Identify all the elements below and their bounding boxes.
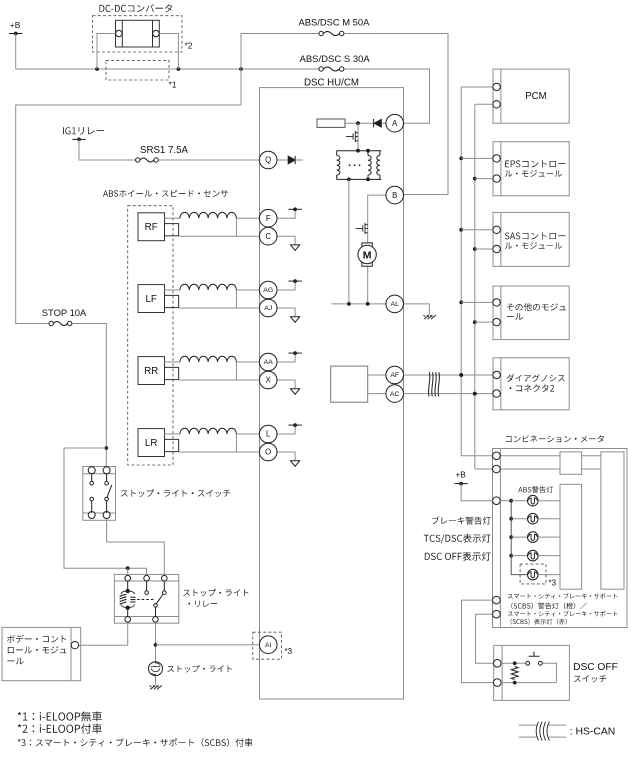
- label diagnosis line2: [510, 384, 555, 392]
- svg-text:ABS/DSC M 50A: ABS/DSC M 50A: [299, 16, 371, 27]
- fuse ABS/DSC S 30A: [300, 54, 371, 71]
- terminal AC: [386, 385, 404, 403]
- DSC OFF switch box: [494, 645, 570, 700]
- power stub at sensor LF: [277, 279, 302, 290]
- node solenoid supply junction: [356, 121, 360, 125]
- terminal AL: [386, 295, 404, 313]
- module SAS control module: [493, 212, 569, 266]
- DSC OFF switch internals: [501, 652, 556, 685]
- label TCS/DSC indicator: [424, 534, 491, 544]
- label SCBS indicator line2: [511, 619, 567, 625]
- label BCM line1: [7, 635, 66, 643]
- terminal AI (dashed, SCBS): [253, 632, 293, 659]
- wire AC CAN-L: [404, 392, 493, 396]
- lamp SCBS indicator: [528, 569, 561, 580]
- diode at terminal A: [374, 119, 382, 127]
- wire main +B bus y69: [16, 69, 430, 123]
- svg-text:*3: *3: [549, 579, 557, 588]
- wire DC-DC left lead: [97, 34, 116, 70]
- label BCM line2: [8, 646, 66, 653]
- terminal AJ: [259, 299, 277, 317]
- sensor RF: [138, 213, 179, 241]
- terminal AA: [259, 353, 277, 371]
- svg-text:AC: AC: [390, 391, 400, 398]
- stop light relay box: [114, 574, 178, 623]
- footnote 1: [18, 711, 102, 721]
- module other modules: [493, 286, 569, 340]
- chassis ground at stop light: [150, 685, 162, 689]
- meter CAN interface box: [560, 452, 582, 474]
- footnote 2: [18, 724, 102, 734]
- terminal X: [259, 371, 277, 389]
- meter CAN wires inside: [500, 456, 601, 469]
- motor M (pump): [358, 243, 376, 266]
- svg-text:+B: +B: [10, 20, 21, 30]
- wires unit to AF/AC: [368, 375, 386, 394]
- label stop light relay line2: [188, 601, 217, 608]
- node +B battery terminal: [9, 20, 22, 35]
- svg-text:LR: LR: [145, 438, 158, 449]
- chassis ground at AL: [423, 315, 435, 319]
- svg-text:*1: *1: [169, 80, 177, 90]
- svg-text:AI: AI: [265, 642, 272, 649]
- wire +B down to main bus: [15, 34, 17, 70]
- stop light switch box: [83, 467, 116, 521]
- label combination meter: [506, 435, 604, 442]
- svg-text:+B: +B: [455, 470, 466, 480]
- svg-text:AA: AA: [264, 359, 274, 366]
- solenoid valve coil array: [337, 149, 382, 182]
- fuse SRS1 7.5A: [136, 145, 189, 162]
- module body control: [2, 627, 81, 680]
- resistor in DSC OFF switch: [511, 667, 518, 680]
- diode at terminal Q: [277, 156, 303, 164]
- module PCM: [493, 69, 569, 123]
- svg-text:Q: Q: [265, 156, 271, 165]
- svg-text:: HS-CAN: : HS-CAN: [570, 726, 616, 737]
- svg-text:M: M: [363, 249, 372, 261]
- dashed box SCBS lamp *3: [520, 564, 557, 587]
- sensor LR: [138, 429, 179, 457]
- label DSC OFF indicator: [425, 552, 491, 561]
- +B stub at meter: [454, 470, 492, 501]
- svg-text:C: C: [265, 232, 271, 241]
- svg-text:AF: AF: [390, 372, 399, 379]
- DSC HU/CM container box: [260, 88, 404, 699]
- module EPS control module: [493, 142, 569, 196]
- wire sensor LR bottom lead: [179, 434, 260, 452]
- wire CAN-L vertical bus: [473, 104, 477, 469]
- wire sensor RF bottom lead: [179, 218, 260, 236]
- bypass dashed box *1: [106, 60, 177, 89]
- wire sensor LR top lead with coil: [165, 428, 260, 434]
- lamp TCS/DSC indicator: [511, 532, 560, 543]
- label IG1 relay: [63, 127, 104, 135]
- wire IG1 to SRS1 fuse to Q: [79, 139, 259, 160]
- transistor (FET) motor driver: [356, 223, 368, 234]
- svg-text:A: A: [392, 119, 398, 128]
- terminal F: [259, 209, 277, 227]
- footnote 3: [18, 738, 253, 746]
- ground at sensor LF: [277, 308, 300, 322]
- label stop light relay: [183, 589, 248, 597]
- power stub at sensor RR: [277, 351, 302, 362]
- ground at sensor RF: [277, 236, 300, 250]
- svg-text:DSC HU/CM: DSC HU/CM: [304, 77, 359, 88]
- label EPS: [505, 160, 565, 167]
- wire to ABS/DSC M 50A fuse: [241, 34, 448, 195]
- svg-text:AJ: AJ: [264, 305, 272, 312]
- relay coil: [120, 581, 136, 617]
- wire sensor RR top lead with coil: [165, 356, 260, 362]
- svg-text:RF: RF: [145, 222, 158, 233]
- svg-text:SRS1 7.5A: SRS1 7.5A: [140, 145, 188, 156]
- label SAS line2: [505, 242, 562, 249]
- wire meter pin4 to DSC OFF switch: [462, 600, 494, 683]
- terminal O: [259, 443, 277, 461]
- meter pins: [493, 452, 501, 618]
- svg-text:LF: LF: [145, 294, 156, 305]
- stop light switch contacts: [90, 474, 112, 513]
- wires CAN to module pins: [461, 87, 493, 469]
- wire branch to relay coil: [64, 448, 147, 575]
- wire sensor RF top lead with coil: [165, 212, 260, 218]
- svg-text:X: X: [266, 376, 272, 385]
- wire relay to stop light and AI: [154, 622, 260, 661]
- label ABS warning lamp: [518, 486, 553, 493]
- wire resistor to diode to terminal A: [345, 122, 386, 124]
- label SCBS warning line1: [508, 593, 617, 599]
- terminal A: [386, 114, 404, 132]
- module diagnosis connector 2: [493, 358, 569, 410]
- label SAS: [505, 232, 566, 239]
- svg-text:O: O: [265, 448, 271, 457]
- label brake warning lamp: [432, 516, 491, 524]
- wire relay to body control module: [79, 622, 128, 645]
- combination meter box: [493, 449, 628, 628]
- svg-text:STOP 10A: STOP 10A: [42, 307, 87, 318]
- label BCM line3: [7, 658, 23, 665]
- label ABS wheel speed sensor: [103, 190, 228, 197]
- terminal B: [386, 186, 404, 204]
- svg-text:AG: AG: [263, 287, 273, 294]
- svg-text:RR: RR: [144, 366, 158, 377]
- HS-CAN legend symbol: [519, 722, 566, 741]
- svg-text:B: B: [392, 191, 397, 200]
- ground at sensor LR: [277, 452, 300, 466]
- svg-text:*3: *3: [285, 647, 293, 656]
- label EPS line2: [505, 170, 562, 177]
- label stop light switch: [121, 489, 230, 497]
- sensor LF: [138, 285, 179, 313]
- wire sensor RR bottom lead: [179, 362, 260, 380]
- wire AF CAN-H: [404, 373, 493, 377]
- terminal AF: [386, 366, 404, 384]
- power stub at sensor LR: [277, 423, 302, 434]
- meter middle internal box: [560, 484, 582, 589]
- lamp ABS indicator: [511, 495, 560, 506]
- wire lamp to ground: [155, 676, 157, 685]
- sensor RR: [138, 357, 179, 385]
- dashed box wheel speed sensors: [128, 206, 173, 465]
- label diagnosis: [507, 374, 565, 382]
- label other modules: [507, 303, 566, 311]
- meter right internal box: [601, 452, 624, 589]
- lamp brake indicator: [511, 513, 560, 524]
- label stop light: [167, 665, 232, 673]
- terminal C: [259, 227, 277, 245]
- svg-text:AL: AL: [391, 301, 400, 308]
- svg-text:PCM: PCM: [525, 91, 547, 102]
- wire CAN-H vertical bus: [459, 87, 463, 456]
- node STOP fuse junction: [104, 446, 108, 450]
- label other modules line2: [507, 313, 523, 320]
- wire meter pin5 to DSC OFF switch: [476, 614, 494, 663]
- resistor (solenoid driver) box: [317, 119, 345, 127]
- DC-DC converter dashed box *2: [93, 16, 193, 52]
- wire sensor LF top lead with coil: [165, 284, 260, 290]
- label DSC OFF switch line2: [574, 675, 606, 682]
- stop light lamp: [149, 662, 163, 676]
- hydraulic/CAN unit box: [331, 366, 368, 402]
- svg-text:ABS/DSC S 30A: ABS/DSC S 30A: [300, 54, 371, 65]
- wire DC-DC right lead: [159, 34, 178, 70]
- wire AL ground bus: [331, 179, 386, 305]
- twisted pair symbol: [429, 372, 440, 396]
- transistor (FET) solenoid driver: [346, 123, 358, 151]
- node IG1 relay stub: [72, 138, 85, 142]
- wire terminal B to pump motor: [368, 195, 386, 304]
- svg-text:*2: *2: [185, 41, 193, 51]
- wire AL to chassis ground: [404, 304, 430, 315]
- label SCBS warning line2: [511, 603, 587, 610]
- junction dots on bus: [95, 67, 243, 71]
- label DC-DC converter: [100, 4, 173, 12]
- relay switch contacts: [133, 581, 167, 617]
- svg-text:F: F: [266, 214, 271, 223]
- fuse ABS/DSC M 50A: [299, 16, 371, 35]
- wire bus to STOP fuse: [16, 105, 241, 467]
- terminal Q: [259, 151, 277, 169]
- label SCBS indicator line1: [508, 611, 617, 617]
- fuse STOP 10A: [42, 307, 87, 326]
- terminal AG: [259, 281, 277, 299]
- svg-text:L: L: [266, 430, 271, 439]
- wire stop light switch to relay pin3: [107, 519, 165, 575]
- power stub at sensor RF: [277, 207, 302, 218]
- lamp DSC OFF indicator: [511, 550, 560, 561]
- svg-text:DSC OFF: DSC OFF: [573, 662, 618, 673]
- wire sensor LF bottom lead: [179, 290, 260, 308]
- ground at sensor RR: [277, 380, 300, 394]
- DC-DC converter body: [116, 20, 160, 47]
- terminal L: [259, 425, 277, 443]
- meter lamp bus: [500, 499, 527, 575]
